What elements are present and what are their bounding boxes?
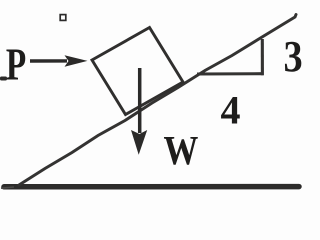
small square symbol — [60, 15, 66, 21]
svg-text:3: 3 — [284, 32, 303, 81]
svg-text:W: W — [164, 128, 199, 173]
weight W arrowhead — [131, 130, 147, 155]
block (tilted square) — [92, 28, 183, 115]
slope triangle vertical leg (3) — [261, 39, 264, 75]
force P arrow shaft — [30, 59, 67, 62]
svg-text:4: 4 — [221, 88, 241, 133]
edge mark left — [0, 77, 7, 81]
incline line — [19, 15, 296, 186]
ground line — [4, 184, 299, 190]
svg-text:P: P — [6, 40, 26, 90]
force P arrowhead — [65, 55, 88, 67]
weight W arrow shaft — [138, 68, 142, 133]
slope triangle horizontal leg (4) — [197, 72, 264, 75]
